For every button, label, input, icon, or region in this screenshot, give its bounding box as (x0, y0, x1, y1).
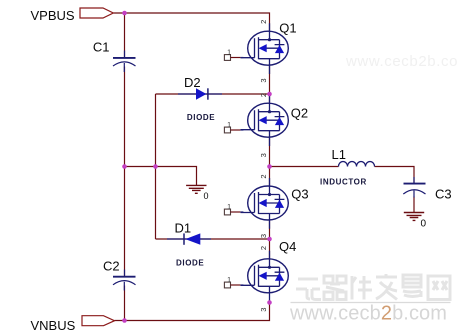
transistor Q4 (241, 251, 289, 302)
inductor L1 (320, 147, 375, 187)
node junction VPBUS top (122, 11, 127, 16)
node junction VNBUS bottom (122, 318, 127, 323)
wire D1 row (156, 238, 270, 240)
wire left bus upper segment (124, 13, 126, 57)
transistor Q3 (241, 178, 289, 229)
ground 0 under C3 (404, 213, 424, 221)
svg-text:D2: D2 (184, 75, 201, 90)
svg-text:Q1: Q1 (279, 21, 296, 36)
svg-text:Q2: Q2 (291, 105, 308, 120)
capacitor C3 (403, 177, 451, 201)
wire Q3 source to Q4 drain (269, 220, 271, 259)
node junction phase Q2-Q3-L1 (267, 164, 272, 169)
Q2 gate stub port (224, 122, 243, 133)
svg-text:2: 2 (259, 93, 268, 97)
svg-text:3: 3 (259, 78, 268, 82)
capacitor C1 (93, 40, 136, 72)
diode D1 (167, 221, 211, 268)
watermark divider line (291, 302, 451, 304)
wire D2 row (156, 93, 270, 95)
svg-text:DIODE: DIODE (176, 259, 204, 268)
node junction bus middle (122, 164, 127, 169)
wire Q2 source to Q3 drain (269, 137, 271, 186)
svg-text:3: 3 (259, 234, 268, 238)
wire left bus lower segment (124, 286, 126, 321)
wire L1 to C3 (375, 167, 415, 184)
port VNBUS (82, 316, 115, 326)
wire C3 to ground (413, 197, 415, 213)
wire middle node to ground (125, 167, 197, 186)
svg-text:VNBUS: VNBUS (31, 318, 76, 333)
svg-text:0: 0 (421, 218, 427, 229)
capacitor C2 (103, 258, 136, 290)
svg-text:DIODE: DIODE (187, 113, 215, 122)
wire top rail VPBUS to Q1 drain (113, 13, 269, 31)
Q1 gate stub port (224, 49, 243, 60)
transistor Q2 (241, 95, 289, 146)
svg-text:2: 2 (259, 174, 268, 178)
svg-text:www.cecb2b.com: www.cecb2b.com (289, 303, 447, 325)
diode D2 (178, 75, 222, 122)
Q3 gate stub port (224, 204, 243, 215)
svg-text:www.cecb2b.com: www.cecb2b.com (345, 53, 458, 70)
wire left bus middle segment (124, 67, 126, 277)
svg-text:C3: C3 (435, 186, 452, 201)
node junction diode column middle (153, 164, 158, 169)
node junction Q1-Q2-D2 (267, 92, 272, 97)
node junction Q3-Q4-D1 (267, 237, 272, 242)
svg-text:L1: L1 (332, 147, 346, 162)
ground 0 middle (186, 185, 206, 193)
svg-text:Q4: Q4 (279, 239, 296, 254)
port VPBUS (80, 8, 113, 18)
svg-text:INDUCTOR: INDUCTOR (320, 178, 367, 187)
svg-text:Q3: Q3 (291, 187, 308, 202)
wire diode column vertical (155, 94, 157, 239)
Q4 gate stub port (224, 277, 243, 288)
svg-text:0: 0 (204, 191, 209, 201)
wire Q1 source to Q2 drain (269, 65, 271, 103)
node junction Q4 source (267, 300, 272, 305)
wire phase node to L1 (270, 166, 339, 168)
svg-text:VPBUS: VPBUS (31, 8, 75, 23)
svg-text:3: 3 (259, 308, 268, 312)
svg-text:2: 2 (259, 20, 268, 24)
svg-text:D1: D1 (175, 221, 192, 236)
svg-text:2: 2 (259, 246, 268, 250)
svg-text:C1: C1 (93, 40, 110, 55)
transistor Q1 (241, 23, 289, 74)
svg-text:C2: C2 (103, 258, 120, 273)
watermark chinese characters (296, 274, 450, 300)
svg-text:3: 3 (259, 153, 268, 157)
wire bottom rail VNBUS to Q4 source (115, 303, 270, 321)
